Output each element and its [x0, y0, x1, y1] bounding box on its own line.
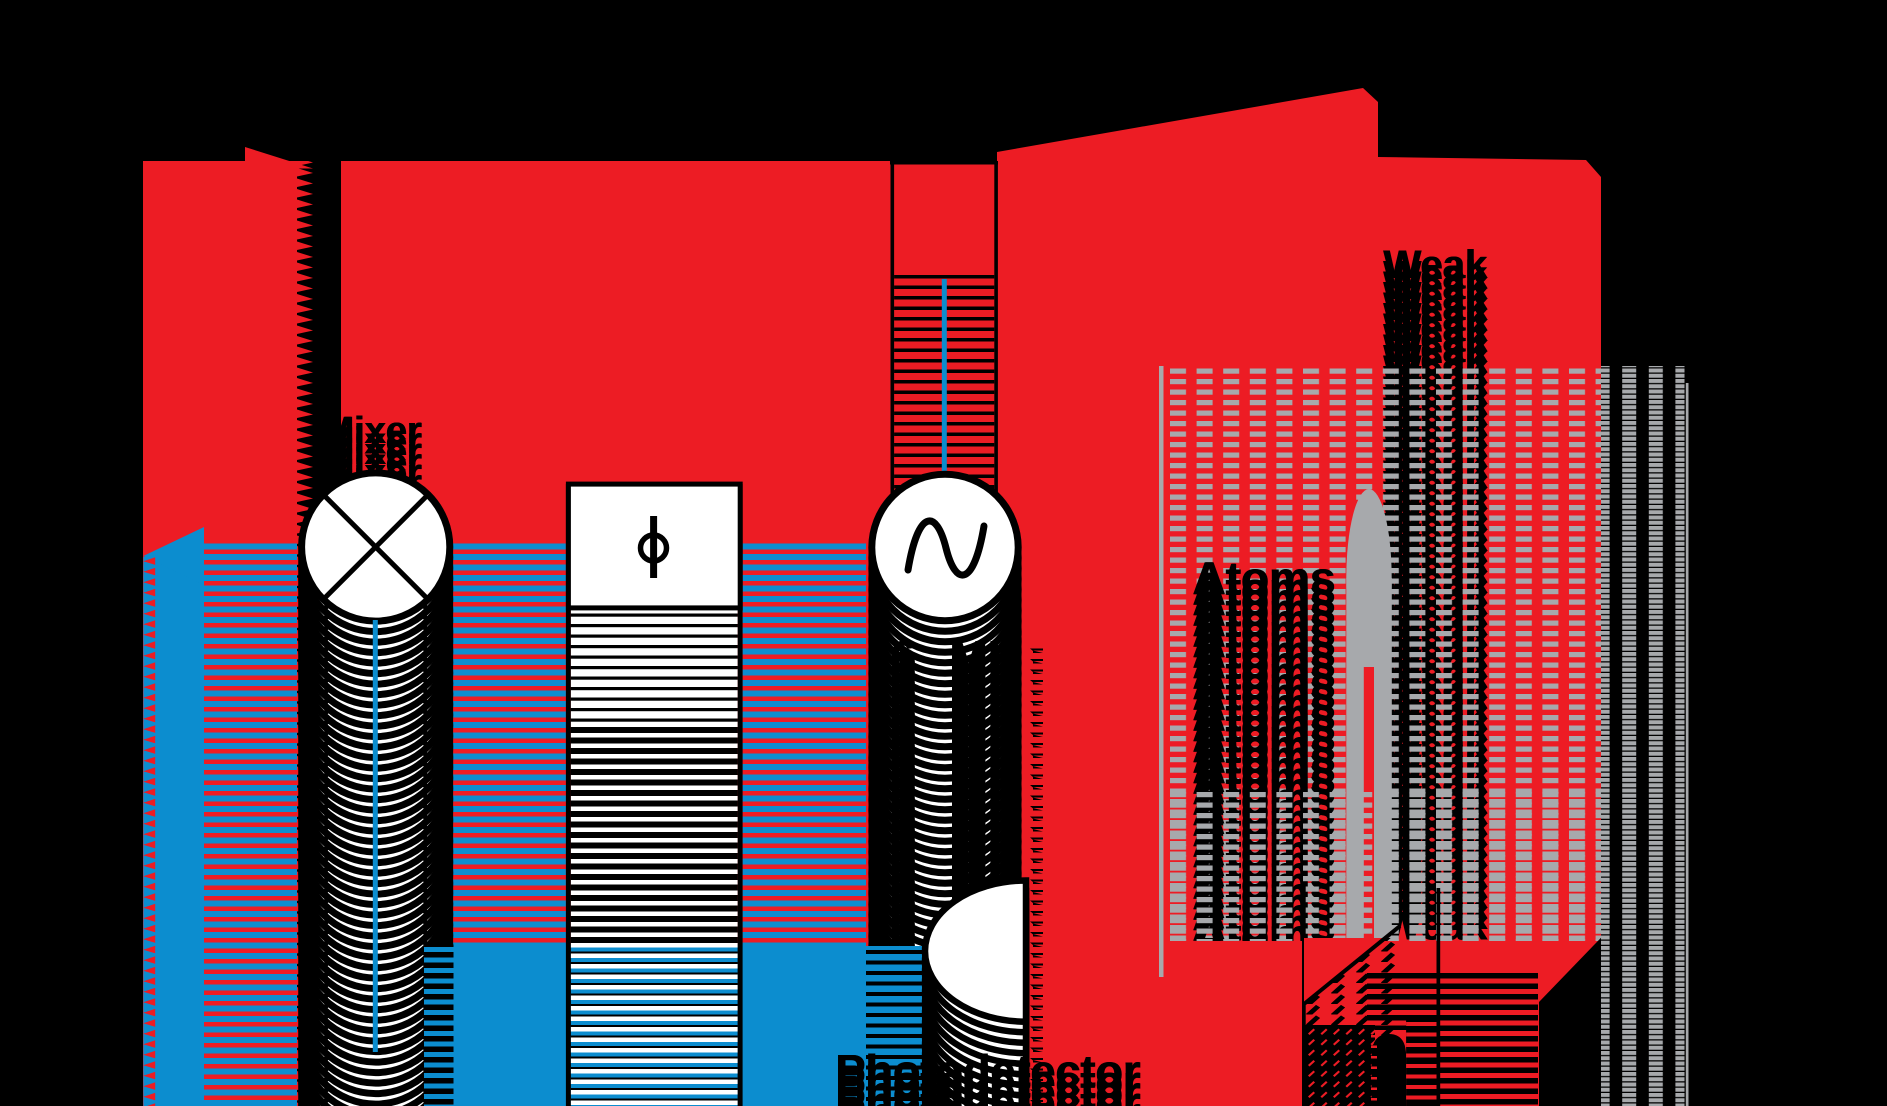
mixer output wire [373, 620, 378, 1052]
right part of cell dashed box over black [1601, 366, 1685, 1106]
hatch fan under diagonal [1304, 938, 1400, 1106]
stripes left of mixer [204, 544, 297, 1106]
z echo dashes on red [1030, 648, 1044, 1106]
scope box lines [1302, 886, 1306, 1106]
EOM red fill R3 [891, 161, 997, 1106]
cell box left/right edges [1159, 366, 1164, 977]
solid black + dome [1304, 1025, 1375, 1106]
diagonal wire [1304, 926, 1400, 1004]
stripes mixer-phi [453, 544, 566, 945]
blue output beam masses [424, 945, 866, 1106]
phase shifter box smear [566, 484, 571, 1106]
stripes phi-osc [743, 544, 866, 945]
beam slab R2 [341, 161, 891, 1106]
vapor cell dashed box (bottom edge echoes) [1164, 788, 1602, 1106]
6 MHz label smear [890, 631, 1045, 1106]
vapor cell dashed box (top edge echoes) [1164, 366, 1602, 1106]
Mixer label smear [323, 494, 422, 536]
red lines on black right of dome [1406, 1019, 1436, 1106]
black lines over red left of vline2 [1367, 973, 1437, 1030]
ladder right of vline2 [1440, 973, 1538, 1106]
slanted beam + right beam R4 [997, 88, 1601, 1106]
Weak label smear [1384, 905, 1489, 949]
EOM box borders + ladder [890, 161, 998, 165]
servo wire mass [1539, 888, 1661, 1106]
Atoms label smear [1193, 909, 1336, 961]
atom cloud ellipse smear [1346, 489, 1391, 667]
EOM drive wire [942, 279, 947, 475]
Photodetector label smear [836, 1098, 1141, 1106]
lower red beam mass [1160, 941, 1601, 1106]
laser beam arrow R1 [143, 161, 297, 1106]
blue arrow head + column [152, 556, 204, 1106]
